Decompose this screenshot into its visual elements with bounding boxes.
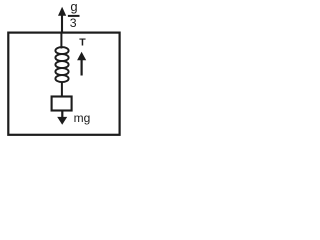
svg-text:g: g	[70, 0, 77, 14]
acceleration arrow (up, g/3)	[58, 7, 66, 32]
svg-text:mg: mg	[74, 111, 91, 125]
spring coil	[55, 47, 68, 82]
label g/3 fraction	[68, 0, 80, 30]
tension arrow (up)	[77, 52, 86, 76]
spring bottom rod	[61, 82, 63, 97]
mass block	[52, 97, 72, 111]
spring top rod	[60, 34, 62, 49]
svg-text:T: T	[79, 37, 86, 49]
weight arrow (down, mg)	[57, 112, 67, 125]
svg-text:3: 3	[70, 16, 77, 30]
box (elevator cabin)	[8, 33, 119, 135]
